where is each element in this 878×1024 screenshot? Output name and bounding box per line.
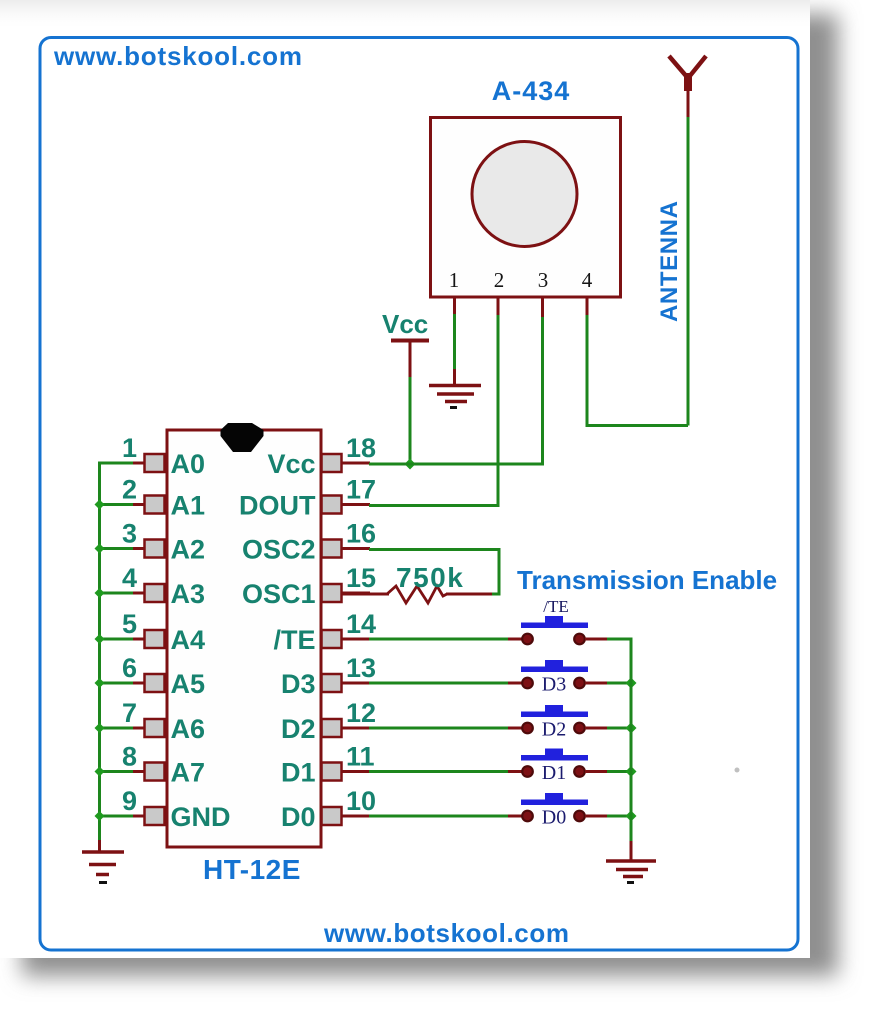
U1 pin 5 pad <box>145 630 165 648</box>
RF module U2 body <box>431 118 621 298</box>
svg-text:D3: D3 <box>281 669 316 699</box>
U1 pin 7 pad <box>145 719 165 737</box>
U1 pin 14 pad <box>322 630 342 648</box>
wire pin 2 to bus <box>98 503 133 506</box>
wire OSC2 (pin 16) <box>369 550 499 595</box>
switch SW5 stub right <box>585 815 608 818</box>
U1 pin 17 stub <box>341 503 370 506</box>
wire antenna to U2 pin 4 <box>587 314 688 426</box>
antenna E1 <box>669 56 706 118</box>
speck <box>735 768 740 773</box>
wire U2 pin 3 to Vcc rail <box>370 317 543 464</box>
svg-text:/TE: /TE <box>543 597 569 616</box>
top scan shading <box>0 0 810 30</box>
wire pin 6 to bus <box>98 682 133 685</box>
svg-text:D3: D3 <box>542 674 566 696</box>
svg-text:3: 3 <box>122 519 137 549</box>
U1 pin 11 pad <box>322 763 342 781</box>
U1 pin 8 pad <box>145 763 165 781</box>
svg-text:5: 5 <box>122 609 137 639</box>
wire switch SW3 to ground bus <box>607 727 632 730</box>
svg-text:2: 2 <box>494 268 505 292</box>
U1 pin 15 stub <box>341 592 370 595</box>
svg-text:D1: D1 <box>542 762 566 784</box>
U1 pin 2 pad <box>145 496 165 514</box>
wire pin 5 to bus <box>98 638 133 641</box>
switch SW5 <box>521 793 588 821</box>
U1 pin 15 pad <box>322 584 342 602</box>
svg-text:17: 17 <box>346 475 376 505</box>
svg-text:www.botskool.com: www.botskool.com <box>323 918 570 948</box>
IC U1 HT-12E body <box>167 430 321 847</box>
address bus wire (left) <box>98 462 101 842</box>
U1 pin 2 stub <box>132 503 145 506</box>
wire switch SW1 to ground bus <box>607 638 632 641</box>
switch SW1 stub right <box>585 638 608 641</box>
svg-text:7: 7 <box>122 698 137 728</box>
svg-text:D2: D2 <box>281 714 316 744</box>
svg-text:10: 10 <box>346 786 376 816</box>
svg-text:HT-12E: HT-12E <box>203 854 301 885</box>
switch SW3 stub left <box>508 727 522 730</box>
svg-text:A-434: A-434 <box>492 76 571 106</box>
svg-text:A2: A2 <box>171 535 206 565</box>
switch SW3 <box>521 705 588 733</box>
junction left bus <box>95 634 105 644</box>
svg-text:A5: A5 <box>171 669 206 699</box>
schematic frame border <box>40 38 798 951</box>
junction left bus <box>95 767 105 777</box>
U1 pin 13 pad <box>322 674 342 692</box>
ground bus wire (right) <box>630 638 633 843</box>
svg-text:9: 9 <box>122 786 137 816</box>
junction left bus <box>95 588 105 598</box>
U1 pin 1 stub <box>132 462 145 465</box>
svg-text:1: 1 <box>449 268 460 292</box>
U1 pin 7 stub <box>132 727 145 730</box>
switch SW2 stub left <box>508 682 522 685</box>
svg-text:Vcc: Vcc <box>267 449 315 479</box>
switch SW5 stub left <box>508 815 522 818</box>
wire switch SW5 to ground bus <box>607 815 632 818</box>
svg-text:14: 14 <box>346 609 376 639</box>
svg-text:www.botskool.com: www.botskool.com <box>53 41 303 71</box>
power flag Vcc bar <box>391 341 429 379</box>
wire switch SW4 to ground bus <box>607 770 632 773</box>
U2 pin 3 stub <box>541 297 544 318</box>
svg-text:4: 4 <box>582 268 593 292</box>
svg-text:6: 6 <box>122 653 137 683</box>
U1 pin 4 stub <box>132 592 145 595</box>
switch SW2 stub right <box>585 682 608 685</box>
U2 pin 1 stub <box>453 297 456 315</box>
wire U1 pin 14 to switch <box>369 638 509 641</box>
svg-text:D0: D0 <box>542 807 566 829</box>
U1 pin 4 pad <box>145 584 165 602</box>
svg-text:Transmission Enable: Transmission Enable <box>517 565 777 595</box>
U1 pin 11 stub <box>341 770 370 773</box>
svg-text:D1: D1 <box>281 758 316 788</box>
U1 pin 13 stub <box>341 682 370 685</box>
wire U1 pin 11 to switch <box>369 770 509 773</box>
svg-text:D2: D2 <box>542 719 566 741</box>
junction left bus <box>95 544 105 554</box>
U1 pin 18 pad <box>322 454 342 472</box>
wire Vcc rail (pin 18) <box>369 463 543 466</box>
U1 pin 9 stub <box>132 815 145 818</box>
svg-text:16: 16 <box>346 519 376 549</box>
wire Vcc to rail <box>409 377 412 464</box>
switch SW4 stub left <box>508 770 522 773</box>
resistor R1 750k <box>341 586 492 603</box>
svg-text:750k: 750k <box>396 562 464 593</box>
wire DOUT (pin 17) <box>369 504 498 507</box>
svg-text:13: 13 <box>346 653 376 683</box>
switch SW3 stub right <box>585 727 608 730</box>
svg-text:8: 8 <box>122 742 137 772</box>
wire U1 pin 12 to switch <box>369 727 509 730</box>
U1 pin 12 stub <box>341 727 370 730</box>
switch SW1 <box>521 616 588 644</box>
junction left bus <box>95 678 105 688</box>
junction Vcc rail <box>405 459 416 470</box>
svg-text:A1: A1 <box>171 491 206 521</box>
switch SW4 stub right <box>585 770 608 773</box>
svg-text:OSC2: OSC2 <box>242 535 316 565</box>
svg-text:4: 4 <box>122 563 137 593</box>
wire U2 pin 2 to DOUT <box>370 315 498 506</box>
junction ground bus <box>626 723 637 734</box>
ground GND2 bottom-left <box>82 840 124 883</box>
wire pin 8 to bus <box>98 770 133 773</box>
switch SW2 <box>521 660 588 688</box>
junction ground bus <box>626 766 637 777</box>
junction left bus <box>95 811 105 821</box>
U1 pin 16 stub <box>341 547 370 550</box>
svg-text:/TE: /TE <box>273 625 315 655</box>
wire pin 9 to bus <box>98 815 133 818</box>
wire antenna vertical <box>687 117 690 426</box>
wire switch SW2 to ground bus <box>607 682 632 685</box>
switch SW4 <box>521 749 588 777</box>
U1 pin 6 stub <box>132 682 145 685</box>
wire U1 pin 13 to switch <box>369 682 509 685</box>
junction ground bus <box>626 678 637 689</box>
junction ground bus <box>626 811 637 822</box>
U1 pin 17 pad <box>322 496 342 514</box>
svg-text:18: 18 <box>346 433 376 463</box>
svg-text:3: 3 <box>538 268 549 292</box>
wire U1 pin 10 to switch <box>369 815 509 818</box>
U1 pin 5 stub <box>132 638 145 641</box>
U1 pin 3 pad <box>145 540 165 558</box>
IC U1 notch <box>221 423 264 452</box>
U1 pin 12 pad <box>322 719 342 737</box>
svg-text:A0: A0 <box>171 449 206 479</box>
svg-text:A6: A6 <box>171 714 206 744</box>
svg-text:OSC1: OSC1 <box>242 579 316 609</box>
svg-text:GND: GND <box>171 802 231 832</box>
U1 pin 3 stub <box>132 547 145 550</box>
U1 pin 10 stub <box>341 815 370 818</box>
svg-text:2: 2 <box>122 475 137 505</box>
junction left bus <box>95 723 105 733</box>
svg-text:1: 1 <box>122 433 137 463</box>
svg-text:DOUT: DOUT <box>239 491 316 521</box>
svg-text:ANTENNA: ANTENNA <box>656 200 683 322</box>
ground GND3 bottom-right <box>606 841 656 883</box>
svg-text:Vcc: Vcc <box>382 309 428 339</box>
U1 pin 18 stub <box>341 462 370 465</box>
U1 pin 1 pad <box>145 454 165 472</box>
svg-text:A4: A4 <box>171 625 206 655</box>
svg-text:12: 12 <box>346 698 376 728</box>
wire pin 1 to bus <box>98 462 133 465</box>
wire U2 pin 1 to ground <box>453 314 456 370</box>
wire pin 7 to bus <box>98 727 133 730</box>
U1 pin 10 pad <box>322 807 342 825</box>
ground GND1 under U2 pin 1 <box>429 369 481 408</box>
wire pin 3 to bus <box>98 547 133 550</box>
U1 pin 8 stub <box>132 770 145 773</box>
switch SW1 stub left <box>508 638 522 641</box>
svg-text:11: 11 <box>346 742 375 772</box>
svg-text:15: 15 <box>346 563 376 593</box>
U2 pin 2 stub <box>497 297 500 316</box>
U1 pin 6 pad <box>145 674 165 692</box>
U1 pin 14 stub <box>341 638 370 641</box>
wire pin 4 to bus <box>98 592 133 595</box>
svg-text:D0: D0 <box>281 802 316 832</box>
svg-text:A3: A3 <box>171 579 206 609</box>
U1 pin 16 pad <box>322 540 342 558</box>
U2 pin 4 stub <box>586 297 589 315</box>
junction left bus <box>95 500 105 510</box>
U1 pin 9 pad <box>145 807 165 825</box>
svg-text:A7: A7 <box>171 758 206 788</box>
